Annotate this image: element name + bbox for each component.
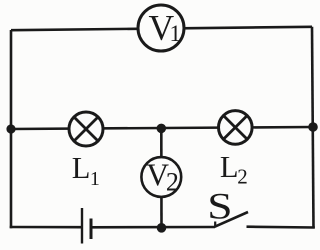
svg-text:S: S [207,186,232,227]
svg-text:L: L [72,151,91,185]
svg-text:1: 1 [90,168,100,190]
svg-text:L: L [220,150,239,184]
svg-text:2: 2 [166,168,179,197]
svg-text:1: 1 [170,21,182,46]
svg-text:2: 2 [237,165,248,189]
